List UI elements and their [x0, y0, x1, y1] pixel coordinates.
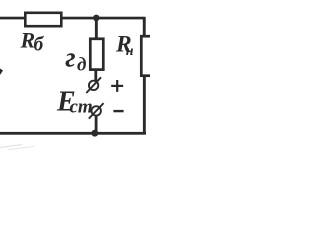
svg-text:ст: ст [70, 97, 93, 118]
svg-text:д: д [77, 55, 86, 76]
svg-text:н: н [126, 44, 134, 59]
svg-text:б: б [34, 35, 45, 56]
svg-text:г: г [65, 43, 75, 74]
